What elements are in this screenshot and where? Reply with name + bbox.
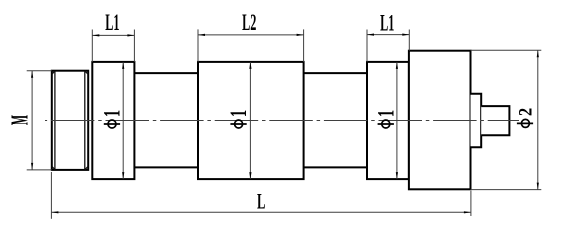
svg-text:1: 1: [100, 110, 125, 117]
svg-text:2: 2: [514, 108, 535, 116]
svg-text:L1: L1: [105, 10, 119, 35]
svg-text:L: L: [257, 189, 265, 214]
svg-text:L2: L2: [242, 10, 256, 35]
svg-text:M: M: [7, 115, 34, 125]
svg-text:L1: L1: [380, 10, 394, 35]
svg-text:1: 1: [227, 110, 252, 117]
svg-text:1: 1: [374, 110, 399, 117]
